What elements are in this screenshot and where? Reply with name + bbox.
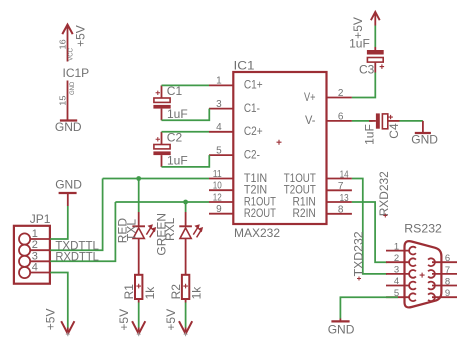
pin 10 T2IN bbox=[209, 189, 233, 191]
JP1 pad 1 bbox=[19, 233, 30, 244]
svg-text:3: 3 bbox=[216, 99, 222, 110]
JP1 pad 2 bbox=[19, 245, 30, 256]
svg-text:1uF: 1uF bbox=[167, 107, 188, 121]
svg-text:C4: C4 bbox=[387, 123, 401, 139]
svg-text:GND: GND bbox=[411, 133, 438, 147]
wire TXDTTL bbox=[50, 179, 102, 251]
svg-text:C2-: C2- bbox=[244, 149, 260, 161]
RS232 pin 5 bbox=[386, 296, 410, 298]
svg-text:8: 8 bbox=[338, 205, 344, 216]
svg-text:9: 9 bbox=[216, 204, 222, 215]
power +5V arrow below R1 bbox=[132, 321, 145, 336]
svg-text:+5V: +5V bbox=[73, 25, 87, 47]
label origin cross TXD232 bbox=[357, 277, 361, 281]
svg-text:+5V: +5V bbox=[164, 309, 178, 331]
RS232 pin 4 bbox=[386, 285, 410, 287]
svg-text:GND: GND bbox=[328, 323, 355, 337]
svg-text:11: 11 bbox=[213, 169, 222, 180]
RS232 pin 2 bbox=[386, 261, 410, 263]
svg-text:RS232: RS232 bbox=[404, 222, 442, 236]
svg-text:1k: 1k bbox=[143, 286, 157, 300]
power +5V arrow above C3 bbox=[371, 12, 380, 26]
svg-text:7: 7 bbox=[338, 181, 344, 192]
label origin cross RXD232 bbox=[383, 214, 387, 218]
svg-text:+5V: +5V bbox=[117, 309, 131, 331]
RS232 pin 6 bbox=[432, 261, 457, 263]
svg-text:6: 6 bbox=[338, 112, 344, 123]
svg-text:IC1: IC1 bbox=[234, 59, 255, 73]
svg-text:RXL: RXL bbox=[163, 217, 177, 241]
pin 7 T2OUT bbox=[327, 189, 352, 191]
svg-text:GND: GND bbox=[70, 81, 76, 95]
pin 6 V- bbox=[327, 120, 352, 122]
wire R2 to +5V bbox=[185, 303, 187, 328]
svg-text:V-: V- bbox=[305, 115, 316, 127]
connector JP1 box bbox=[14, 226, 50, 284]
svg-text:IC1P: IC1P bbox=[63, 66, 90, 80]
svg-text:JP1: JP1 bbox=[30, 212, 51, 226]
op IC1 MAX232 box bbox=[233, 72, 326, 224]
ground above JP1 bbox=[59, 193, 77, 206]
svg-text:R1IN: R1IN bbox=[293, 196, 316, 208]
svg-text:C2+: C2+ bbox=[244, 126, 263, 138]
svg-text:C2: C2 bbox=[167, 131, 183, 145]
svg-text:V+: V+ bbox=[304, 92, 316, 104]
power symbol IC1P +5V arrow (pin 16) bbox=[62, 25, 72, 62]
svg-text:+5V: +5V bbox=[43, 309, 57, 331]
svg-text:1: 1 bbox=[394, 241, 399, 252]
resistor R1 bbox=[135, 275, 142, 303]
svg-text:2: 2 bbox=[338, 88, 344, 99]
svg-text:RXD232: RXD232 bbox=[379, 171, 391, 216]
connector RS232 body bbox=[405, 241, 442, 307]
wire C2 top to pin 4 bbox=[162, 131, 210, 133]
wire JP1 pin4 to +5V bbox=[50, 273, 68, 328]
wire JP1 pin1 to ground bbox=[50, 206, 68, 239]
origin cross IC1 bbox=[277, 140, 282, 145]
wire T1IN net bbox=[103, 178, 209, 180]
svg-text:C1+: C1+ bbox=[244, 80, 263, 92]
svg-text:9: 9 bbox=[445, 288, 450, 299]
svg-text:C3: C3 bbox=[359, 62, 375, 76]
wire C3 to pin 2 bbox=[352, 73, 375, 98]
RS232 pin 3 bbox=[386, 273, 410, 275]
pin 2 V+ bbox=[327, 97, 352, 99]
svg-text:GND: GND bbox=[55, 177, 82, 191]
wire C1 top to pin 1 bbox=[162, 84, 210, 86]
svg-text:R2IN: R2IN bbox=[293, 208, 316, 220]
LED TXL (red) bbox=[132, 212, 156, 275]
pin 13 R1IN bbox=[327, 201, 352, 203]
svg-text:1uF: 1uF bbox=[349, 37, 370, 51]
RS232 pin 9 bbox=[432, 296, 457, 298]
ground below RS232 bbox=[331, 319, 349, 322]
LED RXL (green) bbox=[179, 212, 203, 275]
svg-text:R1: R1 bbox=[122, 284, 136, 300]
svg-text:GND: GND bbox=[55, 120, 82, 134]
wire RXDTTL bbox=[50, 202, 115, 261]
svg-text:R2: R2 bbox=[169, 284, 183, 300]
capacitor C4 bbox=[369, 113, 400, 128]
svg-text:4: 4 bbox=[394, 276, 399, 287]
pin 5 C2- bbox=[209, 154, 233, 156]
svg-text:T1OUT: T1OUT bbox=[284, 173, 316, 185]
JP1 pin 2 line bbox=[30, 249, 50, 251]
RS232 pin 7 bbox=[432, 273, 457, 275]
svg-text:8: 8 bbox=[445, 277, 450, 288]
svg-text:3: 3 bbox=[32, 250, 38, 262]
pin 1 C1+ bbox=[209, 84, 233, 86]
svg-text:R1OUT: R1OUT bbox=[244, 196, 276, 208]
wire RS232 pin 5 to ground bbox=[340, 297, 398, 318]
pin 3 C1- bbox=[209, 108, 233, 110]
svg-text:T2OUT: T2OUT bbox=[284, 185, 316, 197]
JP1 pin 1 line bbox=[30, 238, 50, 240]
svg-text:4: 4 bbox=[32, 262, 38, 274]
svg-text:15: 15 bbox=[57, 95, 67, 105]
svg-text:5: 5 bbox=[216, 145, 222, 156]
svg-text:T2IN: T2IN bbox=[244, 185, 267, 197]
wire C2 bottom to pin 5 bbox=[162, 155, 210, 167]
wire junction to LED RXL bbox=[185, 202, 187, 212]
wire T1OUT to RS232 pin 3 bbox=[352, 179, 387, 274]
svg-text:13: 13 bbox=[340, 193, 349, 204]
capacitor C3 bbox=[367, 47, 384, 73]
wire +5V to C3 bbox=[374, 26, 376, 48]
svg-text:2: 2 bbox=[394, 253, 399, 264]
power +5V arrow below JP1 bbox=[61, 321, 74, 336]
svg-text:TXD232: TXD232 bbox=[353, 231, 365, 276]
wire R1IN to RS232 pin 2 bbox=[352, 202, 387, 262]
JP1 pad 3 bbox=[19, 256, 30, 267]
ground right of C4 bbox=[415, 121, 431, 133]
RS232 pin 1 bbox=[386, 250, 410, 252]
capacitor C2 bbox=[153, 132, 170, 167]
junction R1OUT/LED RXL bbox=[183, 200, 188, 205]
pin 9 R2OUT bbox=[209, 213, 233, 215]
svg-text:4: 4 bbox=[216, 122, 222, 133]
wire C4 to ground bbox=[400, 120, 423, 122]
wire junction to LED TXL bbox=[138, 179, 140, 213]
origin cross RS232 bbox=[420, 273, 425, 278]
svg-text:14: 14 bbox=[340, 169, 349, 180]
svg-text:1uF: 1uF bbox=[167, 154, 188, 168]
svg-text:1: 1 bbox=[216, 76, 222, 87]
svg-text:12: 12 bbox=[213, 192, 222, 203]
capacitor C1 bbox=[153, 85, 170, 120]
pin 12 R1OUT bbox=[209, 201, 233, 203]
svg-text:RXDTTL: RXDTTL bbox=[55, 250, 99, 264]
pin 4 C2+ bbox=[209, 131, 233, 133]
wire C1 bottom to pin 3 bbox=[162, 109, 210, 121]
svg-text:1k: 1k bbox=[190, 286, 204, 300]
wire pin 6 to C4 bbox=[352, 120, 373, 122]
svg-text:6: 6 bbox=[445, 253, 450, 264]
pin 11 T1IN bbox=[209, 178, 233, 180]
JP1 pad 4 bbox=[19, 267, 30, 278]
svg-text:3: 3 bbox=[394, 265, 399, 276]
wire R1OUT net bbox=[115, 201, 209, 203]
svg-text:MAX232: MAX232 bbox=[234, 226, 280, 240]
svg-text:1: 1 bbox=[32, 228, 38, 240]
svg-text:10: 10 bbox=[213, 181, 222, 192]
svg-text:16: 16 bbox=[58, 39, 68, 49]
pin 8 R2IN bbox=[327, 213, 352, 215]
JP1 pin 3 line bbox=[30, 260, 50, 262]
svg-text:TXL: TXL bbox=[124, 219, 138, 241]
ground IC1P (pin 15) bbox=[60, 81, 77, 121]
svg-text:1uF: 1uF bbox=[363, 124, 377, 145]
svg-text:7: 7 bbox=[445, 265, 450, 276]
svg-text:R2OUT: R2OUT bbox=[244, 208, 276, 220]
resistor R2 bbox=[182, 275, 189, 303]
power +5V arrow below R2 bbox=[179, 321, 192, 336]
svg-text:VCC: VCC bbox=[69, 47, 75, 60]
JP1 pin 4 line bbox=[30, 272, 50, 274]
RS232 pin 8 bbox=[432, 285, 457, 287]
pin 14 T1OUT bbox=[327, 178, 352, 180]
svg-text:C1-: C1- bbox=[244, 103, 260, 115]
wire R1 to +5V bbox=[138, 303, 140, 328]
junction T1IN/LED TXL bbox=[136, 176, 141, 181]
svg-text:T1IN: T1IN bbox=[244, 173, 267, 185]
